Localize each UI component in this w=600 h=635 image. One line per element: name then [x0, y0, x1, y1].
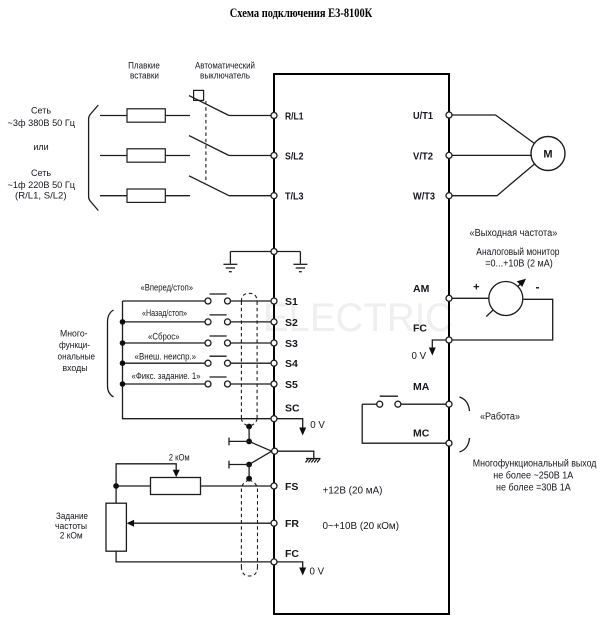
wire: S5 row left — [123, 383, 206, 385]
svg-text:SC: SC — [285, 403, 300, 415]
wire: PE horizontal — [230, 251, 300, 253]
arrow 0V (SC) — [299, 428, 306, 436]
switch SW3 contacts — [205, 340, 211, 346]
terminal AM — [446, 295, 452, 301]
terminal S1 — [271, 298, 277, 304]
svg-text:AM: AM — [413, 283, 430, 295]
meter P1 needle — [486, 282, 523, 317]
node FS junction — [113, 483, 119, 489]
wire: shield2 drain — [249, 451, 272, 464]
svg-text:Автоматический: Автоматический — [195, 61, 255, 71]
svg-text:Задание: Задание — [56, 511, 88, 521]
breaker QF1 trip unit square — [194, 90, 204, 100]
wire: V/T2 to motor — [452, 154, 531, 156]
svg-text:частоты: частоты — [55, 521, 87, 531]
svg-text:не более =30В 1А: не более =30В 1А — [496, 483, 571, 494]
shield cable 1 (dashed oval) — [241, 293, 257, 301]
wire: SC to 0V stub — [277, 419, 303, 429]
wire: phase 2 input — [100, 155, 127, 157]
terminal FS — [271, 483, 277, 489]
wire: S4 row right — [231, 362, 272, 364]
wire: common bus vertical — [123, 301, 272, 419]
svg-text:Плавкие: Плавкие — [128, 61, 160, 71]
fuse F3 — [127, 189, 165, 202]
terminal FC (analog common) — [446, 337, 452, 343]
svg-text:Многофункциональный выход: Многофункциональный выход — [473, 459, 597, 470]
terminal U/T1 — [446, 112, 452, 118]
breaker QF1 pole 3 blade — [189, 176, 229, 196]
svg-text:«Внеш. неиспр.»: «Внеш. неиспр.» — [135, 352, 197, 362]
wire: fuse F3 to breaker — [165, 195, 190, 197]
wire: breaker pole2 to S/L2 — [229, 155, 271, 157]
wire: shield junction to chassis ground — [278, 451, 314, 458]
svg-text:U/T1: U/T1 — [413, 110, 433, 122]
inputs bracket — [108, 310, 114, 397]
terminal shield junction — [272, 448, 278, 454]
wire: FS row — [118, 485, 151, 487]
terminal FC (frequency common) — [271, 559, 277, 565]
terminal MA — [446, 401, 452, 407]
wire: S1 row left — [123, 300, 206, 302]
svg-text:+12В (20 мА): +12В (20 мА) — [323, 486, 383, 497]
svg-text:(R/L1, S/L2): (R/L1, S/L2) — [15, 191, 67, 201]
svg-text:Сеть: Сеть — [31, 106, 51, 116]
wire: junction to pot RP1 top — [115, 488, 117, 503]
breaker QF1 pole 2 blade — [189, 136, 229, 156]
svg-text:FC: FC — [285, 548, 299, 560]
terminal R/L1 — [271, 113, 277, 119]
svg-text:Аналоговый монитор: Аналоговый монитор — [476, 247, 559, 258]
inverter U1 main box E3-8100K — [274, 74, 449, 614]
svg-text:входы: входы — [63, 363, 88, 373]
potentiometer RP1 2k (vertical) — [106, 503, 126, 551]
terminal FR — [271, 520, 277, 526]
svg-text:«Фикс. задание. 1»: «Фикс. задание. 1» — [132, 371, 201, 381]
svg-text:0 V: 0 V — [310, 420, 325, 431]
svg-text:функци-: функци- — [59, 340, 90, 350]
svg-text:0~+10В (20 кОм): 0~+10В (20 кОм) — [323, 521, 400, 532]
breaker QF1 linkage (dashed) — [205, 101, 207, 183]
terminal PE — [271, 249, 277, 255]
svg-text:S4: S4 — [285, 358, 298, 370]
svg-text:Сеть: Сеть — [31, 168, 51, 178]
svg-text:«Назад/стоп»: «Назад/стоп» — [142, 308, 187, 318]
output bracket — [460, 397, 470, 411]
chassis ground (hatched) — [306, 459, 321, 463]
terminal S2 — [271, 319, 277, 325]
wire: fuse F1 to breaker — [165, 115, 190, 117]
terminal V/T2 — [446, 152, 452, 158]
svg-text:R/L1: R/L1 — [285, 111, 304, 123]
svg-text:«Вперед/стоп»: «Вперед/стоп» — [141, 283, 194, 293]
svg-text:S3: S3 — [285, 338, 298, 350]
svg-text:выключатель: выключатель — [200, 71, 250, 81]
svg-text:S2: S2 — [285, 317, 298, 329]
terminal S5 — [271, 381, 277, 387]
wire: S2 row right — [231, 321, 272, 323]
wire: meter to FC loop — [452, 299, 553, 340]
terminal W/T3 — [446, 193, 452, 199]
svg-text:~1ф 220В 50 Гц: ~1ф 220В 50 Гц — [8, 180, 76, 190]
svg-text:«Выходная частота»: «Выходная частота» — [470, 228, 558, 239]
breaker QF1 pole 1 blade — [189, 96, 229, 116]
motor M — [531, 137, 565, 171]
svg-text:0 V: 0 V — [412, 351, 427, 362]
wire: MC row — [362, 404, 446, 443]
wire: S5 row right — [231, 383, 272, 385]
svg-text:«Работа»: «Работа» — [480, 412, 520, 423]
svg-text:=0...+10В (2 мА): =0...+10В (2 мА) — [485, 259, 553, 270]
junction dots on bus — [120, 319, 126, 325]
wire: AM to meter — [452, 297, 489, 299]
wire: W/T3 to motor — [452, 164, 535, 196]
switch SW5 contacts — [205, 381, 211, 387]
wire: MA row — [362, 403, 377, 405]
svg-text:FR: FR — [285, 518, 299, 530]
meter P1 (analog monitor) — [489, 282, 523, 316]
wire: S3 row right — [231, 342, 272, 344]
svg-text:не более ~250В 1А: не более ~250В 1А — [493, 471, 573, 482]
wire: FC to 0V stub (bottom) — [277, 562, 303, 569]
ground (internal earth) — [293, 252, 307, 272]
terminal SC — [271, 416, 277, 422]
terminal S4 — [271, 360, 277, 366]
wire: breaker pole1 to R/L1 — [229, 115, 271, 117]
svg-text:вставки: вставки — [130, 71, 159, 81]
wire: fuse F2 to breaker — [165, 155, 190, 157]
wire: S1 row right — [231, 300, 272, 302]
terminal S3 — [271, 340, 277, 346]
wire: shield1 drain — [248, 427, 250, 442]
svg-text:ональные: ональные — [58, 352, 96, 362]
wire: S3 row left — [123, 342, 206, 344]
switch SW4 contacts — [205, 360, 211, 366]
svg-text:V/T2: V/T2 — [413, 150, 433, 162]
svg-text:Много-: Много- — [60, 329, 88, 339]
svg-text:M: M — [543, 149, 552, 161]
wire: pot RP1 bottom to FC — [116, 551, 271, 562]
svg-text:FC: FC — [413, 323, 427, 335]
svg-text:Схема подключения Е3-8100К: Схема подключения Е3-8100К — [230, 6, 373, 20]
svg-text:MA: MA — [413, 381, 430, 393]
fuse F1 — [127, 109, 165, 122]
shield 1 drain node — [246, 424, 252, 430]
svg-text:S/L2: S/L2 — [285, 151, 304, 163]
shield cable 2 (dashed oval) — [241, 480, 249, 489]
svg-text:S5: S5 — [285, 379, 298, 391]
svg-text:0 V: 0 V — [310, 567, 325, 578]
svg-text:T/L3: T/L3 — [285, 191, 304, 203]
svg-text:S1: S1 — [285, 296, 298, 308]
terminal MC — [446, 440, 452, 446]
mains bracket — [89, 105, 99, 211]
svg-text:~3ф 380В 50 Гц: ~3ф 380В 50 Гц — [8, 118, 76, 128]
relay contact K1 — [377, 401, 383, 407]
ground (external earth) — [223, 252, 237, 272]
resistor RP2 2k (horizontal) — [151, 478, 201, 495]
terminal S/L2 — [271, 153, 277, 159]
svg-text:2 кОм: 2 кОм — [169, 453, 190, 463]
arrow 0V (analog) — [429, 348, 436, 356]
svg-text:W/T3: W/T3 — [413, 191, 435, 203]
terminal T/L3 — [271, 193, 277, 199]
svg-text:«Сброс»: «Сброс» — [148, 332, 180, 342]
wire: S2 row left — [123, 321, 206, 323]
fuse F2 — [127, 149, 165, 162]
wire: FC to 0V stub — [432, 340, 446, 348]
svg-text:MC: MC — [413, 428, 430, 440]
wire: breaker pole3 to T/L3 — [229, 195, 271, 197]
switch SW2 contacts — [205, 319, 211, 325]
wire: phase 1 input — [100, 115, 127, 117]
svg-text:-: - — [536, 280, 540, 294]
wire: wiper feedback — [116, 464, 176, 484]
wire: U/T1 to motor — [452, 115, 535, 144]
svg-text:FS: FS — [285, 481, 298, 493]
arrow wiper RP2 — [173, 470, 180, 478]
wire: S4 row left — [123, 362, 206, 364]
svg-text:2 кОм: 2 кОм — [60, 531, 83, 541]
wire: FR row with wiper arrow — [133, 522, 271, 524]
svg-text:+: + — [473, 282, 479, 294]
svg-text:или: или — [33, 142, 48, 152]
shield 2 drain node — [246, 476, 252, 482]
switch SW1 contacts — [205, 298, 211, 304]
arrow 0V (bottom) — [299, 568, 306, 576]
wire: phase 3 input — [100, 195, 127, 197]
